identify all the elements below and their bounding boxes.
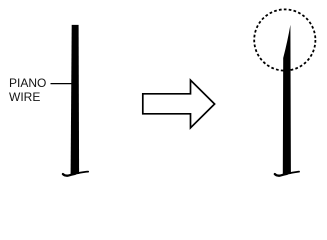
right wire base squiggle — [275, 174, 288, 176]
svg-text:PIANO: PIANO — [9, 76, 46, 90]
leader line from label to wire — [51, 83, 74, 85]
left wire base squiggle — [63, 174, 76, 176]
block arrow pointing right — [143, 80, 215, 128]
dashed circle highlight around sharpened tip — [254, 9, 315, 70]
svg-text:WIRE: WIRE — [9, 90, 40, 104]
right piano wire with sharpened tip — [283, 25, 291, 174]
label: PIANO WIRE — [9, 76, 46, 104]
left piano wire (straight) — [71, 25, 80, 174]
